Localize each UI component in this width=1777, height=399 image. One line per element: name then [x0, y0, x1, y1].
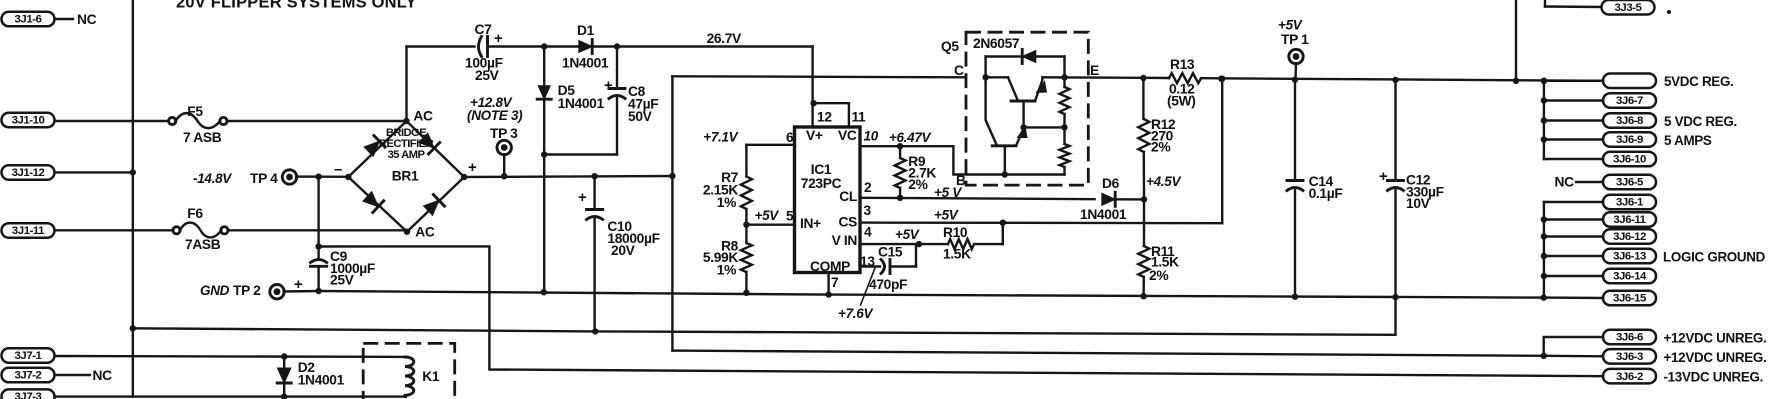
svg-text:1%: 1% [717, 195, 736, 210]
connector 3J1-12 [2, 165, 55, 180]
svg-text:CS: CS [839, 215, 858, 230]
svg-text:TP 4: TP 4 [250, 171, 278, 186]
svg-text:35 AMP: 35 AMP [388, 149, 426, 161]
svg-text:R10: R10 [943, 225, 968, 240]
capacitor C7 [479, 37, 482, 57]
svg-text:11: 11 [852, 110, 867, 125]
svg-text:+: + [468, 159, 477, 176]
svg-text:3J7-2: 3J7-2 [15, 370, 42, 382]
svg-text:CL: CL [839, 189, 857, 204]
svg-text:(NOTE 3): (NOTE 3) [467, 108, 523, 123]
svg-text:NC: NC [93, 368, 113, 383]
connector 3J7-2 [2, 368, 55, 383]
svg-text:AC: AC [415, 225, 435, 240]
Q5 internal emitter line [1005, 173, 1065, 175]
svg-text:+5V: +5V [895, 227, 920, 242]
svg-text:7ASB: 7ASB [185, 237, 221, 252]
wire logic ground bus lower [1543, 202, 1545, 298]
wire rail riser [1515, 0, 1517, 81]
svg-text:+7.1V: +7.1V [703, 130, 738, 145]
svg-text:D1: D1 [577, 23, 595, 38]
svg-text:TP 1: TP 1 [1281, 32, 1309, 47]
diode D5 with vertical [543, 47, 545, 87]
connector 3J6-6 [1603, 330, 1656, 345]
svg-text:+12VDC UNREG.: +12VDC UNREG. [1664, 350, 1767, 365]
resistor R10 [948, 239, 974, 249]
svg-text:1.5K: 1.5K [943, 247, 971, 262]
wire ground bus [284, 291, 1544, 298]
wire 3J1-11 to fuse F6 [55, 229, 174, 231]
svg-text:BR1: BR1 [392, 169, 419, 184]
svg-text:5 VDC REG.: 5 VDC REG. [1664, 114, 1737, 129]
fuse F5 [169, 117, 176, 124]
svg-text:V IN: V IN [832, 233, 858, 248]
resistor R11 [1143, 199, 1145, 246]
svg-text:3J7-3: 3J7-3 [15, 391, 42, 399]
connector 3J6-8 [1603, 113, 1656, 128]
svg-text:3J6-10: 3J6-10 [1613, 154, 1646, 166]
connector 3J7-1 [2, 348, 55, 363]
wire TP4 to bridge minus [296, 175, 348, 178]
Q5 transistor T2 [992, 144, 1016, 147]
wire IC pin3 CS [860, 221, 1222, 224]
svg-text:+5V: +5V [1278, 18, 1303, 33]
svg-text:25V: 25V [475, 68, 500, 83]
svg-text:3J6-15: 3J6-15 [1613, 293, 1647, 305]
connector 3J1-6 [2, 12, 55, 26]
wire IC pin10 to Q5 base [860, 146, 1005, 174]
svg-text:3J6-9: 3J6-9 [1616, 134, 1643, 146]
wire IC pin7 to ground [827, 273, 829, 295]
connector 3J3-5 [1544, 0, 1546, 7]
svg-text:+6.47V: +6.47V [889, 130, 932, 145]
svg-text:IC1: IC1 [811, 162, 832, 177]
svg-text:5 AMPS: 5 AMPS [1664, 133, 1712, 148]
connector 3J6-12 [1603, 229, 1656, 244]
wire +12V unreg to 3J6-3 [672, 351, 1543, 356]
svg-text:(5W): (5W) [1167, 94, 1195, 109]
svg-text:2%: 2% [1149, 268, 1168, 283]
svg-text:3J6-1: 3J6-1 [1616, 197, 1644, 209]
svg-text:3J6-8: 3J6-8 [1616, 115, 1643, 127]
connector 3J6-15 [1603, 291, 1656, 306]
svg-text:C15: C15 [878, 245, 903, 260]
svg-text:R13: R13 [1170, 57, 1195, 72]
svg-text:2: 2 [864, 180, 872, 195]
svg-text:AC: AC [413, 109, 433, 124]
Q5 internal collector node [982, 74, 988, 80]
connector 3J6-14 [1603, 269, 1656, 284]
wire Q5 emitter to R13 [1042, 76, 1169, 79]
svg-text:3J6-7: 3J6-7 [1616, 95, 1643, 107]
transistor Q5 2N6057 dashed box [966, 32, 1088, 185]
svg-text:K1: K1 [422, 369, 440, 384]
resistor R9 [899, 146, 901, 158]
svg-text:+12VDC UNREG.: +12VDC UNREG. [1664, 331, 1767, 346]
connector 3J7-3 [2, 389, 55, 399]
svg-text:1%: 1% [717, 263, 736, 278]
wire left bus vertical [132, 0, 134, 397]
connector 3J6-13 [1603, 249, 1656, 263]
svg-text:3J6-13: 3J6-13 [1613, 251, 1646, 263]
svg-text:LOGIC GROUND: LOGIC GROUND [1663, 250, 1766, 265]
svg-text:+: + [604, 77, 613, 94]
svg-text:20V: 20V [611, 243, 636, 258]
wire 3J7-3 row [55, 395, 407, 397]
svg-text:+: + [1379, 168, 1388, 185]
Q5 internal resistor R2 [1063, 127, 1065, 144]
fuse F6 [173, 227, 180, 234]
wire 3J7-1 row [55, 355, 407, 358]
svg-text:TP 2: TP 2 [233, 283, 261, 298]
connector 3J6-3 [1603, 349, 1656, 364]
svg-text:D6: D6 [1102, 176, 1120, 191]
label +7.6V with leader [861, 268, 876, 305]
Q5 transistor T1 [1011, 100, 1035, 103]
svg-text:20V FLIPPER SYSTEMS ONLY: 20V FLIPPER SYSTEMS ONLY [176, 0, 417, 12]
connector 3J6-1 [1603, 195, 1656, 210]
svg-text:3J7-1: 3J7-1 [15, 350, 43, 362]
connector 3J6-9 [1603, 132, 1656, 147]
svg-text:3J1-12: 3J1-12 [12, 167, 45, 179]
svg-text:TP 3: TP 3 [490, 126, 518, 141]
wire -13VDC unreg [319, 246, 1603, 376]
svg-text:3J6-5: 3J6-5 [1616, 177, 1644, 189]
relay K1 dashed box [363, 343, 455, 399]
svg-text:1N4001: 1N4001 [1080, 207, 1127, 222]
svg-text:COMP: COMP [810, 259, 850, 274]
resistor R8 [741, 243, 752, 272]
svg-text:-14.8V: -14.8V [193, 171, 232, 186]
wire IC pin6 [746, 144, 794, 146]
svg-text:2N6057: 2N6057 [973, 36, 1020, 51]
svg-text:3J6-12: 3J6-12 [1613, 231, 1646, 243]
svg-text:3J6-11: 3J6-11 [1613, 214, 1646, 226]
svg-text:+: + [578, 189, 587, 206]
svg-text:50V: 50V [628, 109, 653, 124]
svg-text:F5: F5 [187, 104, 203, 119]
diode D2 [283, 357, 285, 369]
svg-text:2%: 2% [1151, 140, 1170, 155]
capacitor C12 [1394, 80, 1396, 181]
wire AC top to rail [405, 47, 407, 122]
wire fuse F5 to bridge AC top [227, 120, 407, 122]
svg-text:5: 5 [786, 209, 794, 224]
regulator IC1 723PC [795, 127, 861, 273]
relay K1 coil [405, 357, 414, 397]
wire R13 to rail right [1201, 78, 1603, 81]
svg-text:F6: F6 [187, 206, 203, 221]
svg-text:6: 6 [786, 130, 794, 145]
svg-text:25V: 25V [330, 273, 355, 288]
svg-text:VC: VC [838, 128, 857, 143]
svg-text:0.1µF: 0.1µF [1309, 186, 1343, 201]
svg-text:GND: GND [200, 283, 230, 298]
svg-text:3J3-5: 3J3-5 [1615, 2, 1643, 14]
connector 3J6-10 [1603, 152, 1656, 167]
svg-text:IN+: IN+ [800, 216, 821, 231]
capacitor C15 [860, 265, 880, 267]
svg-text:10: 10 [864, 129, 879, 144]
svg-text:4: 4 [864, 225, 872, 240]
resistor R13 [1169, 73, 1201, 83]
svg-text:3J6-14: 3J6-14 [1613, 271, 1647, 283]
svg-text:470pF: 470pF [869, 277, 907, 292]
wire +5V bus upper [1543, 81, 1545, 159]
wire fuse F6 to bridge AC bottom [228, 229, 407, 231]
svg-text:+5V: +5V [934, 208, 959, 223]
resistor R7 [745, 145, 747, 177]
wire Q5 collector feed [672, 76, 966, 77]
svg-text:3J1-11: 3J1-11 [12, 225, 45, 237]
svg-text:+7.6V: +7.6V [838, 306, 873, 321]
svg-text:+5V: +5V [755, 208, 780, 223]
svg-text:3: 3 [864, 203, 872, 218]
Q5 internal diode [984, 57, 986, 78]
connector 3J6-7 [1603, 93, 1656, 108]
resistor R12 [1142, 78, 1144, 119]
wire rail to IC pins 12 11 [811, 47, 813, 128]
svg-text:C7: C7 [475, 22, 493, 37]
svg-text:10V: 10V [1406, 196, 1431, 211]
connector 5VDC REG blank [1603, 74, 1656, 89]
svg-text:E: E [1090, 63, 1099, 78]
capacitor C9 [317, 177, 319, 259]
svg-text:26.7V: 26.7V [707, 31, 742, 46]
svg-text:V+: V+ [806, 128, 823, 143]
Q5 internal resistor R1 [1063, 77, 1065, 87]
svg-text:5VDC REG.: 5VDC REG. [1664, 74, 1733, 89]
svg-text:C: C [954, 63, 964, 78]
capacitor C10 [593, 176, 595, 209]
svg-text:2%: 2% [908, 177, 927, 192]
svg-text:+5 V: +5 V [934, 185, 962, 200]
diode D6 [1102, 193, 1115, 205]
svg-text:3J6-3: 3J6-3 [1616, 351, 1643, 363]
svg-text:NC: NC [1555, 175, 1575, 190]
svg-text:1N4001: 1N4001 [558, 96, 605, 111]
wire 3J6-3 row [1544, 355, 1603, 358]
connector 3J6-11 [1603, 212, 1656, 227]
connector 3J6-2 [1603, 369, 1656, 384]
svg-text:1N4001: 1N4001 [562, 56, 609, 71]
svg-text:12: 12 [817, 110, 832, 125]
connector 3J1-11 [2, 223, 55, 238]
svg-text:3J6-6: 3J6-6 [1616, 332, 1643, 344]
wire bridge plus to +12V vertical [464, 176, 672, 177]
wire IC pin4 VIN [860, 243, 948, 245]
wire IC pin2 CL [860, 198, 1095, 199]
wire IC pin5 [746, 223, 794, 225]
wire 3J1-12 to left bus [55, 171, 133, 173]
wire top rail 26.7V [407, 45, 475, 47]
svg-text:723PC: 723PC [801, 176, 842, 191]
Q5 internal base link [1024, 126, 1065, 128]
wire lower ground loop [133, 297, 1396, 335]
wire +12V unreg vertical [671, 76, 673, 350]
svg-text:3J6-2: 3J6-2 [1616, 371, 1643, 383]
svg-text:Q5: Q5 [941, 39, 959, 54]
svg-text:NC: NC [77, 12, 97, 27]
wire 3J1-10 to fuse F5 [55, 120, 169, 122]
svg-text:+4.5V: +4.5V [1146, 174, 1181, 189]
bridge rectifier BR1 [348, 121, 464, 232]
svg-text:3J1-6: 3J1-6 [15, 14, 42, 26]
capacitor C14 [1294, 80, 1296, 181]
capacitor C8 [616, 47, 618, 89]
svg-text:7 ASB: 7 ASB [183, 130, 222, 145]
wire 3J6-6 branch [1544, 337, 1603, 356]
connector 3J1-10 [2, 113, 55, 128]
diode D1 [579, 41, 592, 53]
svg-text:3J1-10: 3J1-10 [12, 115, 45, 127]
svg-text:-13VDC UNREG.: -13VDC UNREG. [1664, 370, 1764, 385]
svg-text:7: 7 [831, 275, 839, 290]
svg-text:–: – [334, 161, 342, 178]
svg-text:+: + [494, 30, 503, 47]
svg-text:1N4001: 1N4001 [298, 373, 345, 388]
